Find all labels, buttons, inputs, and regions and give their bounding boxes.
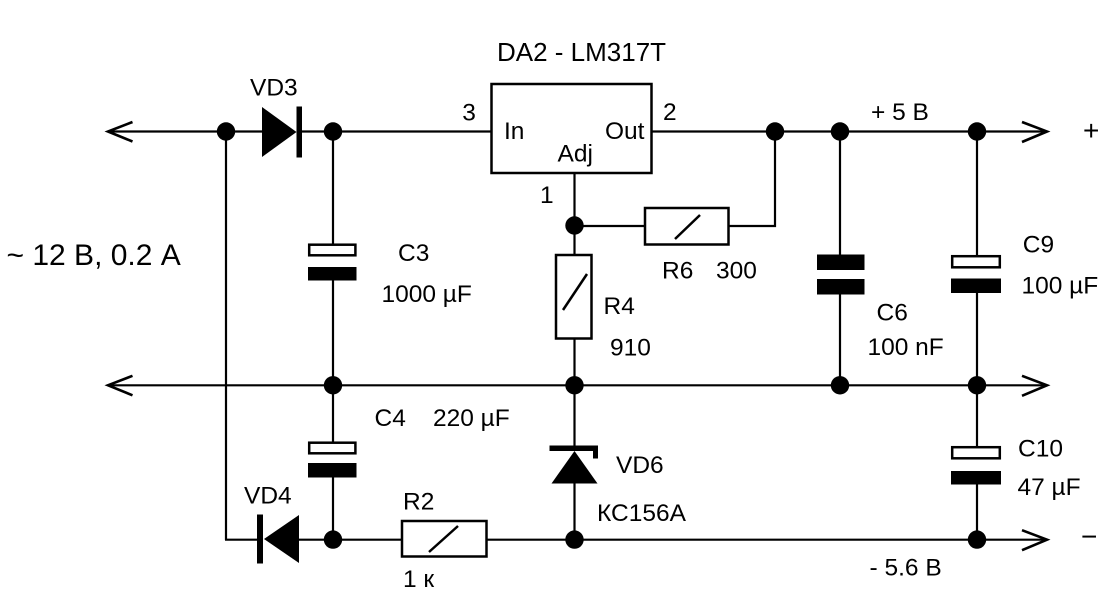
node C10 bottom junction (977,539): [968, 530, 986, 548]
svg-text:DA2 - LM317T: DA2 - LM317T: [497, 37, 666, 67]
wire Adj vertical: [573, 173, 575, 255]
svg-text:- 5.6 В: - 5.6 В: [870, 555, 942, 582]
svg-text:Out: Out: [605, 118, 645, 145]
node C3 bottom junction (333,384): [324, 376, 342, 394]
resistor R6: [645, 208, 729, 245]
wire C9 branch upper: [976, 132, 978, 257]
svg-text:R6: R6: [662, 258, 693, 285]
node C3 top junction (333,131.5): [324, 122, 342, 140]
svg-text:100 nF: 100 nF: [868, 334, 944, 361]
svg-text:1 к: 1 к: [403, 566, 434, 593]
svg-text:C10: C10: [1018, 436, 1063, 463]
wire top rail from VD3 to LM317 In: [302, 130, 492, 132]
node input junction A (227,131.5): [217, 122, 235, 140]
wire left vertical branch x=227: [225, 132, 227, 541]
svg-text:47 µF: 47 µF: [1018, 474, 1081, 501]
arrow right end of middle rail: [1022, 376, 1047, 396]
wire C9 bottom to middle rail: [976, 293, 978, 386]
capacitor C3: [308, 245, 357, 281]
wire bottom rail left stub: [225, 539, 258, 541]
svg-text:R4: R4: [604, 293, 635, 320]
svg-text:Adj: Adj: [558, 141, 593, 168]
node Adj junction (574.5,225.5): [565, 216, 583, 234]
node C6 bottom junction (840,384): [831, 376, 849, 394]
svg-text:R2: R2: [403, 489, 434, 516]
svg-text:КС156А: КС156А: [597, 500, 687, 527]
svg-text:1000 µF: 1000 µF: [382, 281, 472, 308]
svg-text:~ 12 В, 0.2 А: ~ 12 В, 0.2 А: [7, 239, 181, 272]
wire top rail left segment: [108, 130, 262, 132]
svg-text:300: 300: [716, 258, 757, 285]
resistor R4: [556, 255, 592, 339]
zener diode VD6: [550, 446, 599, 484]
wire C6 branch upper: [839, 132, 841, 257]
svg-text:VD6: VD6: [616, 452, 664, 479]
node R6 feedback junction (775,131.5): [766, 122, 784, 140]
capacitor C4: [308, 443, 357, 478]
wire bottom rail from VD4 to R2: [299, 539, 402, 541]
arrow right end of top rail: [1022, 122, 1047, 142]
svg-text:VD4: VD4: [244, 483, 292, 510]
node C4 bottom junction (333,539): [324, 530, 342, 548]
wire VD6 branch upper: [573, 385, 575, 446]
svg-text:VD3: VD3: [250, 75, 298, 102]
wire Adj to R6: [575, 225, 646, 227]
node R4 bottom junction (574.5,384): [565, 376, 583, 394]
arrow left end of top rail: [108, 122, 133, 142]
wire R6 right to feedback vertical: [729, 132, 776, 227]
svg-text:3: 3: [462, 100, 476, 127]
arrow right end of bottom rail: [1022, 530, 1047, 550]
svg-text:+: +: [1083, 115, 1099, 146]
wire C10 bottom to bottom rail: [976, 484, 978, 540]
wire top rail from Out to right arrow: [652, 130, 1047, 132]
svg-text:−: −: [1081, 521, 1097, 552]
node C9 top junction (977,131.5): [968, 122, 986, 140]
wire C3 branch upper: [332, 132, 334, 246]
svg-text:C3: C3: [398, 240, 429, 267]
node VD6 bottom junction (574.5,539): [565, 530, 583, 548]
svg-text:2: 2: [663, 99, 677, 126]
capacitor C6: [817, 255, 865, 295]
svg-text:C4: C4: [375, 405, 406, 432]
svg-text:1: 1: [540, 182, 554, 209]
arrow left end of middle rail: [108, 376, 133, 396]
wire VD6 bottom to bottom rail: [573, 484, 575, 541]
resistor R2: [402, 521, 487, 557]
capacitor C10: [951, 447, 1001, 484]
node C9 bottom junction (977,384): [968, 376, 986, 394]
svg-text:C9: C9: [1023, 232, 1054, 259]
svg-text:In: In: [504, 118, 524, 145]
svg-text:+ 5 В: + 5 В: [871, 99, 929, 126]
wire R4 bottom to middle rail: [573, 339, 575, 387]
svg-text:C6: C6: [877, 300, 908, 327]
node C6 top junction (840,131.5): [831, 122, 849, 140]
wire C10 branch upper: [976, 385, 978, 447]
wire C4 branch upper: [332, 385, 334, 442]
diode VD3: [262, 107, 302, 158]
capacitor C9: [951, 256, 1001, 293]
wire middle rail: [108, 384, 1046, 386]
op-amp regulator DA2 LM317T box: [492, 84, 652, 173]
svg-text:220 µF: 220 µF: [433, 405, 510, 432]
svg-text:910: 910: [610, 335, 651, 362]
wire C4 bottom to bottom rail: [332, 478, 334, 541]
diode VD4: [257, 515, 299, 564]
wire C3 bottom to middle rail: [332, 281, 334, 387]
wire bottom rail from R2 to right arrow: [487, 539, 1047, 541]
svg-text:100 µF: 100 µF: [1022, 273, 1099, 300]
wire C6 bottom to middle rail: [839, 294, 841, 386]
